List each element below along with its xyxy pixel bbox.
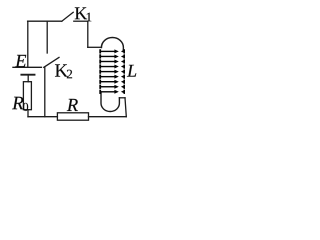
wire bottom right bbox=[89, 116, 127, 118]
resistor R box bbox=[57, 113, 88, 120]
wire bottom left bbox=[28, 116, 57, 118]
wire left vertical to battery bbox=[27, 21, 29, 67]
wire R0 to bottom bbox=[27, 110, 29, 117]
label K2 K bbox=[55, 64, 68, 76]
battery E short plate bbox=[21, 74, 34, 76]
label R0 sub 0 bbox=[23, 103, 28, 111]
wire coil entry bbox=[88, 46, 102, 48]
wire top-right under K1 label bbox=[74, 20, 88, 22]
coil turn 5 bbox=[99, 69, 125, 73]
wire coil exit vertical bbox=[125, 98, 126, 117]
wire drop to coil bbox=[87, 21, 89, 47]
coil turn 9 bbox=[99, 90, 125, 94]
resistor R0 box bbox=[23, 82, 31, 110]
coil turn 3 bbox=[99, 59, 125, 63]
node junction of K2 branch on top wire bbox=[46, 21, 48, 53]
label E bbox=[15, 55, 26, 67]
coil turn 1 bbox=[99, 49, 125, 53]
battery E long plate bbox=[13, 66, 41, 68]
label R0 R bbox=[12, 97, 23, 109]
wire coil exit horizontal bbox=[119, 97, 125, 99]
coil turn 4 bbox=[99, 64, 125, 68]
inductor L top dome bbox=[101, 38, 123, 51]
wire battery to R0 bbox=[27, 75, 29, 82]
coil turn 2 bbox=[99, 54, 125, 58]
coil turn 8 bbox=[99, 85, 125, 89]
inductor L bottom cap bbox=[101, 92, 119, 111]
switch K1 blade bbox=[62, 12, 73, 21]
label K1 K bbox=[75, 7, 87, 19]
wire K2 lower lead bbox=[44, 67, 46, 116]
inductor L turns bbox=[99, 49, 125, 94]
coil turn 7 bbox=[99, 80, 125, 84]
label K2 sub 2 bbox=[67, 70, 72, 79]
label K1 sub 1 bbox=[87, 13, 92, 22]
wire top-left horizontal bbox=[28, 20, 62, 22]
label L bbox=[127, 65, 136, 77]
label R bbox=[67, 99, 78, 111]
coil turn 6 bbox=[99, 75, 125, 79]
switch K2 blade bbox=[44, 57, 59, 67]
